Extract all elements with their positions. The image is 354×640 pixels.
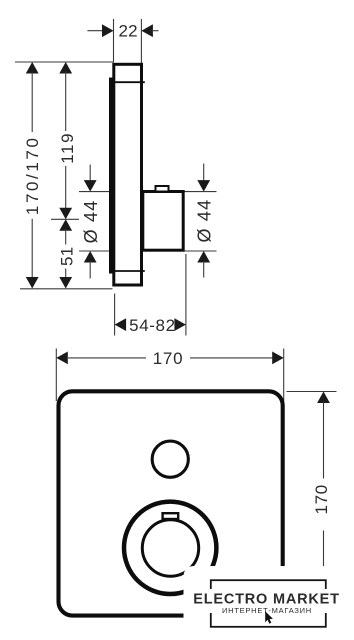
extension line 170 top-left vertical: [55, 349, 57, 402]
svg-text:22: 22: [119, 22, 138, 41]
dimension 170 (top of front view): [56, 349, 283, 368]
extension line 170 right horizontal: [287, 391, 337, 393]
extension tick at 119/51 junction: [51, 218, 79, 220]
extension line cylinder bottom left: [79, 250, 111, 252]
safety button tab on cylinder: [156, 186, 169, 192]
svg-text:170/170: 170/170: [23, 135, 42, 215]
svg-text:Ø 44: Ø 44: [81, 200, 101, 244]
cylinder (side view): [143, 192, 183, 251]
logo white backdrop: [184, 566, 352, 638]
dimension 119 (left inner upper): [58, 62, 77, 219]
svg-text:54-82: 54-82: [129, 316, 175, 335]
extension line 54-82 left vertical: [114, 294, 116, 336]
knob outer circle: [124, 502, 216, 594]
dimension Ø44 (left of cylinder): [81, 165, 101, 279]
dimension 22 (top): [87, 22, 158, 41]
select button circle: [152, 441, 188, 477]
logo frame: [211, 580, 326, 627]
knob inner circle: [142, 520, 198, 576]
extension line cylinder bottom right: [184, 250, 216, 252]
white strip behind title: [189, 589, 343, 613]
body outline (side view): [114, 64, 142, 285]
escutcheon plate (front view rounded square): [59, 391, 283, 615]
dimension 170/170 (left outer): [23, 62, 42, 289]
top cap line: [113, 81, 145, 83]
svg-text:51: 51: [58, 247, 77, 266]
dimension Ø44 (right of cylinder): [195, 164, 215, 278]
mouse cursor arrow: [265, 611, 273, 623]
dimension 54-82 (bottom of side view): [115, 316, 186, 335]
svg-text:170: 170: [312, 484, 331, 514]
svg-text:119: 119: [58, 132, 77, 164]
dimension 170 (right of front view): [287, 392, 337, 616]
extension line top (y=62): [15, 61, 113, 63]
extension line 22 right vertical: [140, 19, 142, 63]
extension line 22 left vertical: [113, 19, 115, 63]
svg-text:170: 170: [153, 349, 183, 368]
bottom cap line: [113, 270, 145, 272]
knob marker tab: [163, 513, 179, 519]
extension line 170 top-right vertical: [283, 349, 285, 402]
escutcheon plate edge (side view, thick front face): [109, 78, 114, 274]
dimension 51 (left inner lower): [58, 219, 77, 288]
extension line cylinder top left: [79, 191, 111, 193]
extension line 54-82 right vertical: [185, 254, 187, 336]
extension line bottom (y=288.8): [20, 288, 113, 290]
svg-text:Ø 44: Ø 44: [195, 199, 215, 243]
extension line cylinder top right: [184, 191, 216, 193]
